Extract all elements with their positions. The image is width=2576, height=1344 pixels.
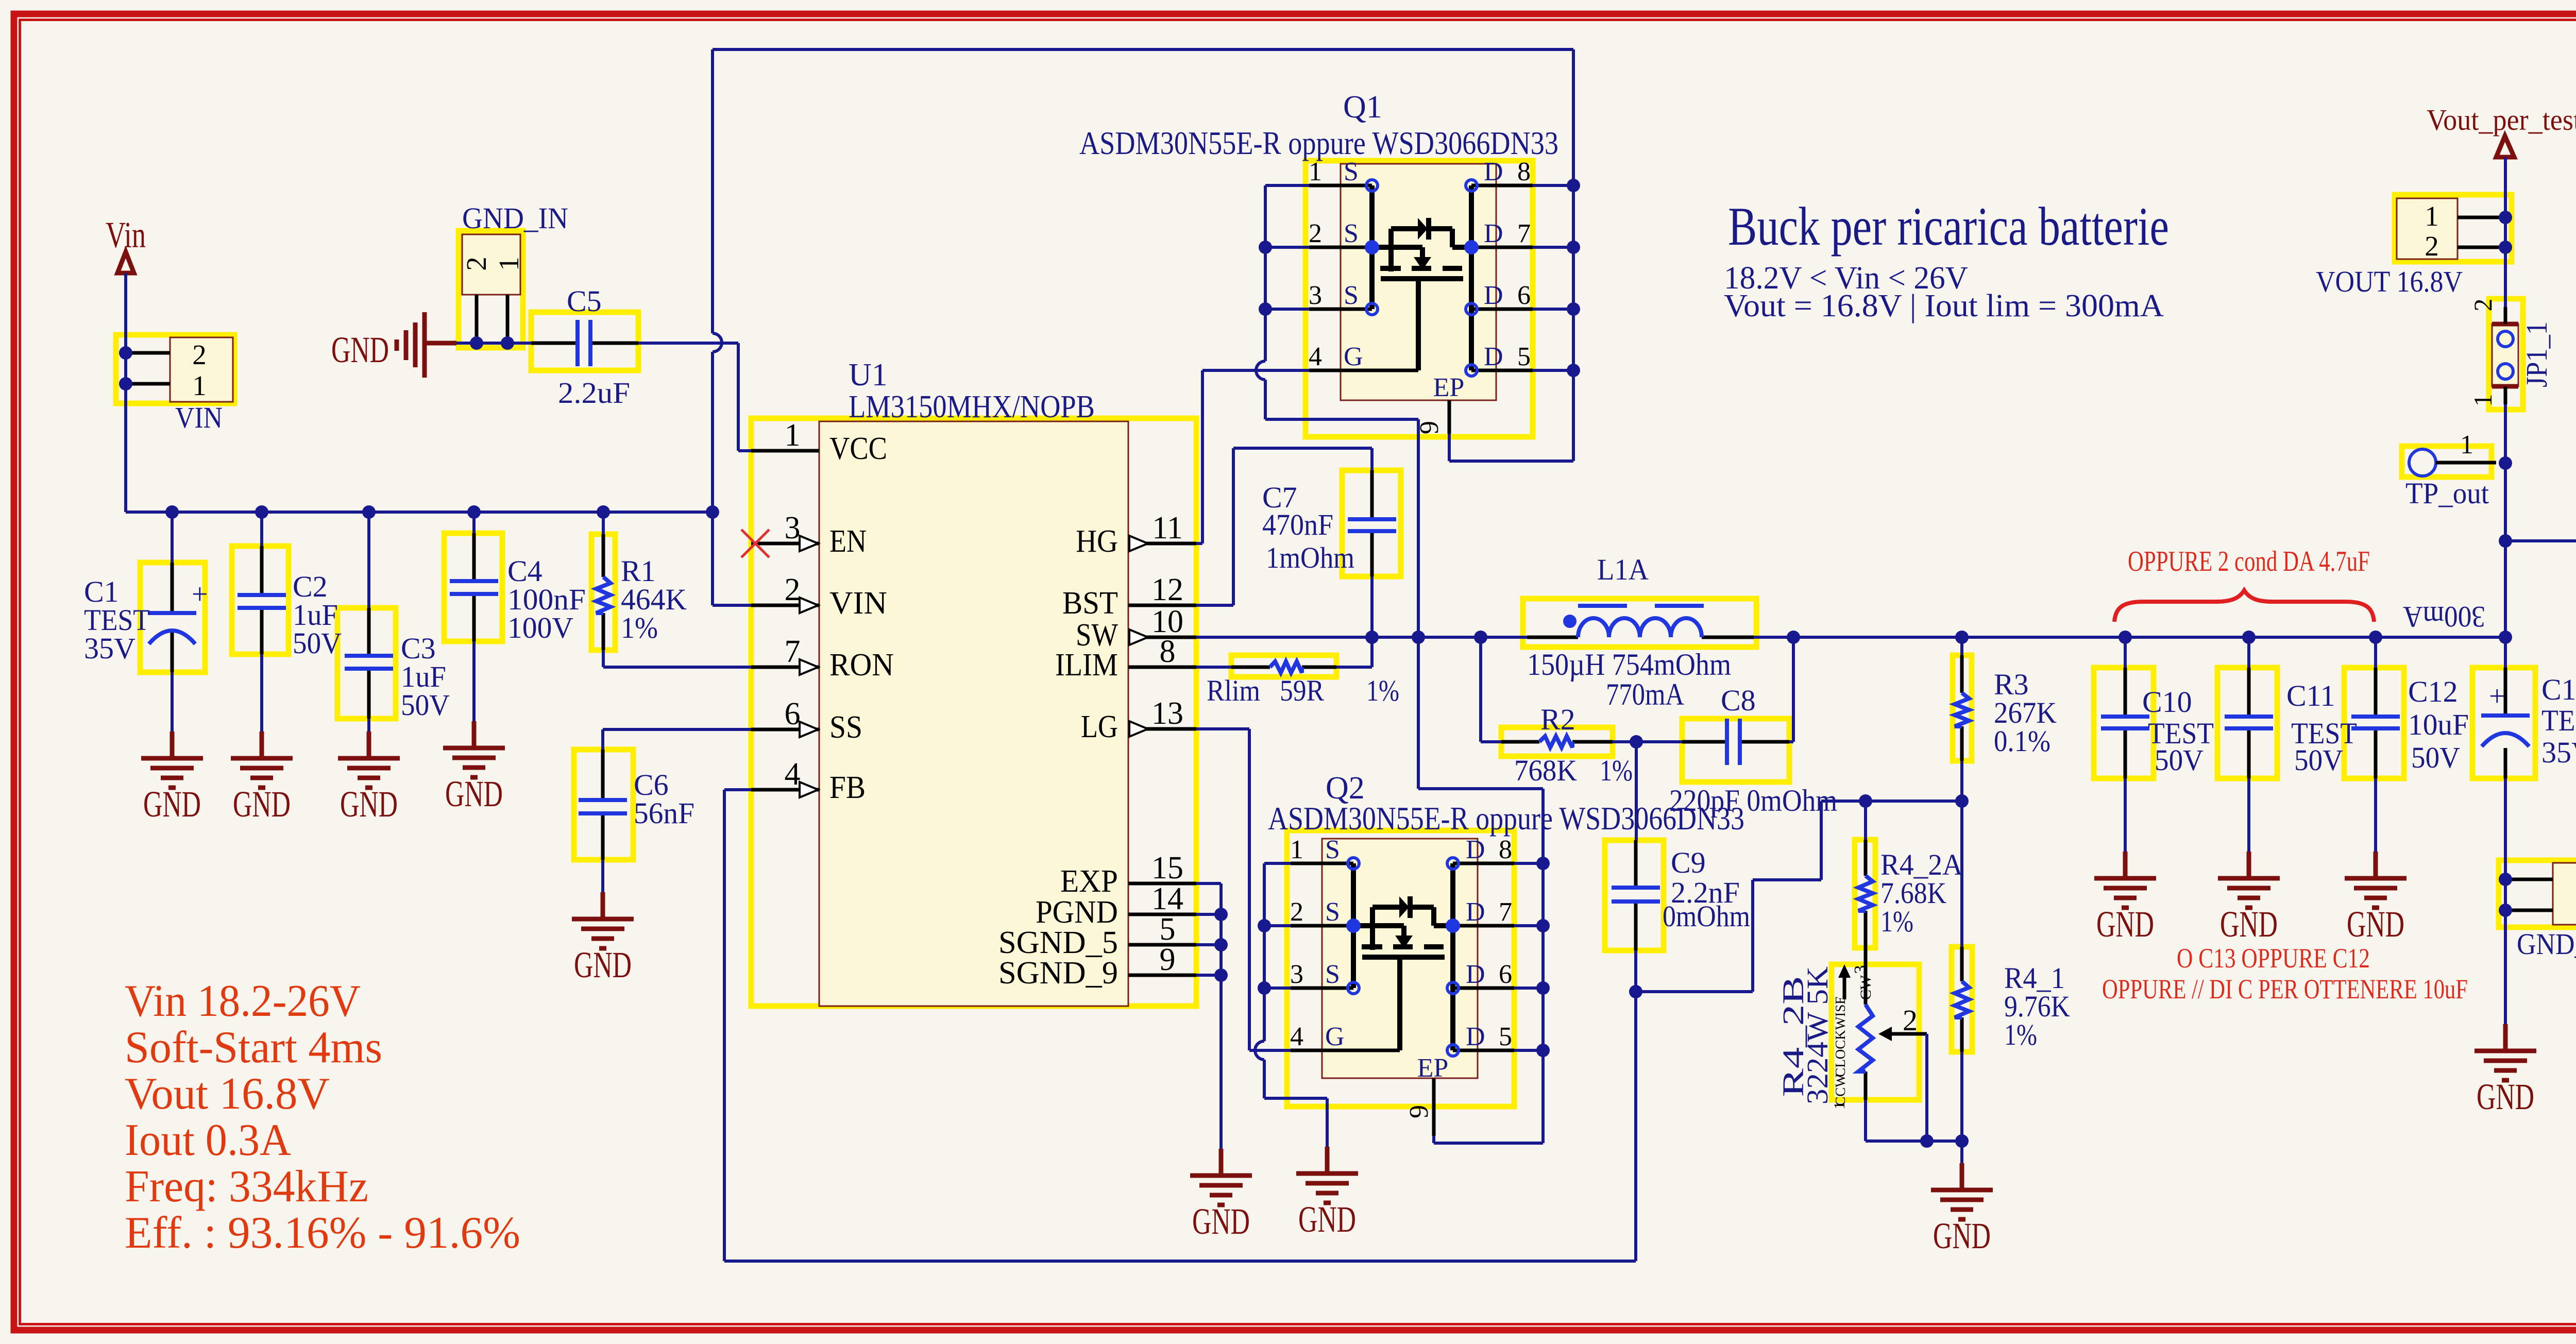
wire C8 to out bus xyxy=(1789,637,1793,742)
svg-text:50V: 50V xyxy=(2155,743,2204,777)
U1 pin 6 SS xyxy=(751,696,862,745)
highlight box: capacitor C4 100nF 100V xyxy=(444,533,502,641)
svg-text:Vout_per_test: Vout_per_test xyxy=(2427,103,2576,137)
U1 pin 15 EXP xyxy=(1060,850,1196,899)
svg-text:PGND: PGND xyxy=(1036,895,1118,930)
svg-text:C13: C13 xyxy=(2541,673,2576,706)
wire C10 to ground xyxy=(2124,778,2127,852)
svg-text:100V: 100V xyxy=(507,611,573,644)
U1 pin 13 LG xyxy=(1081,696,1196,744)
capacitor C6 56nF xyxy=(579,750,694,860)
svg-text:G: G xyxy=(1325,1022,1345,1051)
svg-text:R2: R2 xyxy=(1540,703,1575,736)
svg-text:14: 14 xyxy=(1151,881,1183,916)
svg-text:1%: 1% xyxy=(1600,754,1633,787)
svg-text:35V: 35V xyxy=(2541,736,2576,769)
resistor R1 464K 1% xyxy=(596,512,687,650)
svg-text:2: 2 xyxy=(1903,1003,1918,1037)
svg-text:+: + xyxy=(2489,680,2505,712)
wire C1 to ground xyxy=(171,672,174,731)
Q1 pin junction circles xyxy=(1366,180,1378,191)
highlight box: testpoint TP_out xyxy=(2402,446,2492,477)
svg-text:S: S xyxy=(1325,897,1340,927)
svg-text:2.2uF: 2.2uF xyxy=(558,376,630,410)
svg-text:2: 2 xyxy=(2425,230,2439,262)
wire Q1 S to Q2 D (SW column) xyxy=(1418,637,1543,863)
highlight box: resistor Rlim 59R 1% xyxy=(1231,655,1336,677)
svg-text:+: + xyxy=(192,579,208,610)
svg-text:50V: 50V xyxy=(401,688,450,722)
Q2 pin junction circles xyxy=(1348,858,1359,869)
wire R2 to node xyxy=(1613,740,1682,743)
capacitor C10 TEST 50V xyxy=(2101,637,2214,778)
svg-text:CLOCKWISE: CLOCKWISE xyxy=(1833,996,1848,1077)
svg-text:9: 9 xyxy=(1160,942,1176,977)
connector VOUT xyxy=(2316,198,2502,298)
highlight box: jumper JP1_1 xyxy=(2489,299,2523,410)
wire C13 to GND_OUT xyxy=(2504,778,2507,879)
svg-text:4: 4 xyxy=(785,757,801,792)
connector GND_OUT xyxy=(2509,863,2576,961)
highlight box: transistor Q2 ASDM30N55E-R xyxy=(1287,830,1514,1107)
wire C11 to ground xyxy=(2247,778,2250,852)
svg-text:FB: FB xyxy=(829,770,866,805)
highlight box: connector VOUT xyxy=(2395,195,2512,262)
highlight box: capacitor C13 TEST 35V xyxy=(2472,668,2535,778)
jumper JP1_1 xyxy=(2468,299,2553,407)
wire R1 to RON xyxy=(603,650,751,667)
svg-text:2: 2 xyxy=(1290,897,1303,927)
svg-text:1mOhm: 1mOhm xyxy=(1266,541,1354,574)
wire GND_OUT to ground xyxy=(2504,879,2507,1024)
wire to page edge xyxy=(2505,539,2576,542)
wire SS net xyxy=(603,729,751,750)
resistor R2 768K 1% xyxy=(1481,637,1633,787)
ground GND (C12) xyxy=(2345,852,2406,945)
svg-text:Freq: 334kHz: Freq: 334kHz xyxy=(125,1162,368,1212)
svg-text:1: 1 xyxy=(1309,157,1322,186)
U1 pin 11 HG xyxy=(1076,511,1196,559)
wire C7 to SW xyxy=(1370,576,1374,637)
svg-text:CW: CW xyxy=(1857,975,1874,1000)
svg-text:Rlim: Rlim xyxy=(1207,674,1260,707)
wire output bus 300mA xyxy=(1754,636,2505,639)
svg-text:Eff. : 93.16% - 91.6%: Eff. : 93.16% - 91.6% xyxy=(125,1208,520,1258)
svg-text:U1: U1 xyxy=(849,358,888,393)
svg-text:1%: 1% xyxy=(1366,674,1399,707)
resistor R4_1 9.76K 1% xyxy=(1955,801,2070,1052)
capacitor C9 2.2nF 0mOhm xyxy=(1612,742,1750,950)
svg-text:VOUT 16.8V: VOUT 16.8V xyxy=(2316,265,2463,298)
wire Q2 drain bus xyxy=(1514,863,1543,1050)
svg-text:2: 2 xyxy=(192,339,207,370)
svg-text:Buck per ricarica batterie: Buck per ricarica batterie xyxy=(1728,196,2169,257)
svg-text:D: D xyxy=(1466,897,1485,927)
highlight box: resistor R3 267K 0.1% xyxy=(1953,655,1972,761)
wire U1 ground bus xyxy=(1196,883,1221,1149)
svg-text:S: S xyxy=(1344,157,1359,186)
svg-text:GND_IN: GND_IN xyxy=(462,201,568,235)
U1 pin 4 FB xyxy=(751,757,866,805)
svg-text:TEST: TEST xyxy=(2541,704,2576,737)
svg-text:RON: RON xyxy=(829,648,894,683)
junction dots VIN pins xyxy=(119,346,132,360)
svg-text:2: 2 xyxy=(1309,219,1322,248)
wire R4_1 to ground xyxy=(1960,1052,1963,1163)
svg-text:Vout 16.8V: Vout 16.8V xyxy=(125,1069,330,1119)
highlight box: capacitor C7 470nF 1mOhm xyxy=(1342,470,1401,576)
highlight box: capacitor C6 56nF xyxy=(574,750,633,860)
svg-text:Vin 18.2-26V: Vin 18.2-26V xyxy=(125,976,361,1026)
svg-text:S: S xyxy=(1325,835,1340,864)
svg-text:59R: 59R xyxy=(1280,674,1324,707)
wire Vout column xyxy=(2504,157,2507,668)
svg-text:C10: C10 xyxy=(2142,685,2192,719)
svg-text:4: 4 xyxy=(1309,342,1322,371)
wire FB node to divider xyxy=(1636,801,1821,992)
svg-text:50V: 50V xyxy=(2411,741,2460,774)
note red spec block xyxy=(125,976,520,1258)
svg-text:EN: EN xyxy=(829,524,867,559)
highlight box: connector J VIN xyxy=(116,335,234,403)
U1 pin 3 EN xyxy=(751,511,867,559)
ground GND (input) xyxy=(331,312,456,378)
highlight box: capacitor C8 220pF 0mOhm xyxy=(1682,719,1789,782)
svg-text:7: 7 xyxy=(785,634,801,669)
svg-text:50V: 50V xyxy=(2294,743,2343,777)
svg-text:VCC: VCC xyxy=(829,431,887,466)
svg-text:7: 7 xyxy=(1499,897,1512,927)
highlight box: connector GND_OUT xyxy=(2499,860,2576,927)
power flag Vin xyxy=(106,214,146,273)
svg-text:LM3150MHX/NOPB: LM3150MHX/NOPB xyxy=(849,389,1095,424)
wire hop (Q2 S bus over LG) xyxy=(1255,1041,1264,1060)
svg-text:SGND_9: SGND_9 xyxy=(998,956,1118,991)
power flag Vout_per_test xyxy=(2427,103,2576,157)
testpoint TP_out xyxy=(2405,430,2496,510)
wire Q1 drain bus (Vin) xyxy=(1533,185,1573,370)
svg-text:1: 1 xyxy=(2468,394,2497,407)
U1 pin 10 SW xyxy=(1076,604,1196,653)
highlight box: potentiometer R4_2B 3224W 5K xyxy=(1832,964,1919,1100)
svg-text:7: 7 xyxy=(1517,219,1531,248)
highlight box: capacitor C2 1uF 50V xyxy=(232,546,289,654)
junction dots Q1 S bus xyxy=(1259,241,1272,254)
svg-text:0mOhm: 0mOhm xyxy=(1663,899,1750,933)
U1 pin 12 BST xyxy=(1062,572,1196,621)
svg-text:D: D xyxy=(1484,157,1503,186)
U1 pin 1 VCC xyxy=(751,418,887,466)
wire Q2 source bus to ground xyxy=(1264,863,1291,988)
svg-text:1: 1 xyxy=(192,370,207,401)
svg-text:470nF: 470nF xyxy=(1262,508,1333,541)
capacitor C1 TEST 35V xyxy=(84,512,208,672)
svg-text:35V: 35V xyxy=(84,632,135,665)
highlight box: capacitor C12 10uF 50V xyxy=(2344,668,2404,778)
wire divider row xyxy=(1821,761,1962,801)
svg-text:Vout = 16.8V | Iout lim = 300m: Vout = 16.8V | Iout lim = 300mA xyxy=(1724,288,2164,324)
capacitor C8 220pF 0mOhm xyxy=(1669,684,1837,818)
ground GND (U1) xyxy=(1190,1149,1252,1242)
U1 pin 5 SGND_5 xyxy=(998,912,1196,960)
capacitor C3 1uF 50V xyxy=(345,512,450,722)
resistor R3 267K 0.1% xyxy=(1955,637,2057,761)
connector GND_IN xyxy=(461,201,568,339)
connector J VIN xyxy=(130,337,233,434)
svg-text:8: 8 xyxy=(1160,634,1176,669)
highlight box: capacitor C5 2.2uF xyxy=(531,312,638,370)
svg-text:3: 3 xyxy=(1290,960,1303,989)
svg-text:C8: C8 xyxy=(1721,684,1756,717)
svg-text:JP1_1: JP1_1 xyxy=(2520,321,2553,387)
svg-text:1: 1 xyxy=(1290,835,1303,864)
highlight box: connector GND_IN xyxy=(459,231,523,348)
highlight box: capacitor C11 TEST 50V xyxy=(2217,668,2277,778)
svg-text:9: 9 xyxy=(1404,1105,1434,1118)
wire pot bottom loop xyxy=(1866,1034,1962,1141)
wire FB net bottom loop xyxy=(724,790,1636,1261)
svg-text:11: 11 xyxy=(1152,511,1183,546)
svg-text:1%: 1% xyxy=(2004,1018,2037,1051)
svg-text:D: D xyxy=(1484,281,1503,310)
svg-text:ASDM30N55E-R oppure WSD3066DN3: ASDM30N55E-R oppure WSD3066DN33 xyxy=(1268,800,1744,837)
wire Rlim to SW node xyxy=(1336,637,1372,667)
resistor R4_2A 7.68K 1% xyxy=(1858,801,1963,948)
svg-text:2: 2 xyxy=(2468,299,2497,312)
svg-text:5: 5 xyxy=(1499,1022,1512,1051)
ground GND (C11) xyxy=(2218,852,2280,945)
svg-text:0.1%: 0.1% xyxy=(1994,724,2050,758)
svg-text:G: G xyxy=(1344,342,1363,371)
highlight box: resistor R1 464K 1% xyxy=(591,534,615,650)
wire HG to Q1 gate xyxy=(1196,370,1309,543)
highlight box: capacitor C1 TEST 35V xyxy=(140,563,205,672)
capacitor C11 TEST 50V xyxy=(2225,637,2357,778)
svg-text:6: 6 xyxy=(1517,281,1531,310)
svg-text:TP_out: TP_out xyxy=(2405,477,2489,510)
svg-text:1: 1 xyxy=(2425,200,2439,232)
svg-text:4: 4 xyxy=(1290,1022,1303,1051)
svg-text:6: 6 xyxy=(1499,960,1512,989)
svg-text:C11: C11 xyxy=(2286,679,2335,712)
svg-text:C12: C12 xyxy=(2408,675,2458,708)
wire Q1 source bus to SW xyxy=(1265,185,1309,309)
svg-text:3: 3 xyxy=(1309,281,1322,310)
resistor Rlim 59R 1% xyxy=(1196,661,1399,707)
capacitor C5 2.2uF xyxy=(531,284,638,410)
ground GND (C1) xyxy=(141,731,203,825)
wire ground to GND_IN and C5 xyxy=(456,342,531,345)
svg-text:SGND_5: SGND_5 xyxy=(998,925,1118,960)
svg-text:VIN: VIN xyxy=(175,401,223,434)
svg-text:Iout 0.3A: Iout 0.3A xyxy=(125,1115,291,1165)
highlight box: capacitor C3 1uF 50V xyxy=(337,608,396,719)
svg-text:2: 2 xyxy=(785,572,801,607)
highlight box: transistor Q1 ASDM30N55E-R xyxy=(1306,161,1533,437)
ground GND (divider) xyxy=(1931,1163,1993,1256)
wire BST to C7 xyxy=(1196,448,1372,605)
transistor Q2 ASDM30N55E-R xyxy=(1268,771,1744,1136)
svg-text:ASDM30N55E-R oppure WSD3066DN3: ASDM30N55E-R oppure WSD3066DN33 xyxy=(1079,125,1558,161)
svg-text:5: 5 xyxy=(1517,342,1531,371)
svg-text:D: D xyxy=(1466,960,1485,989)
ground GND (C10) xyxy=(2094,852,2156,945)
svg-text:OPPURE // DI C PER OTTENERE 10: OPPURE // DI C PER OTTENERE 10uF xyxy=(2102,974,2468,1005)
svg-text:1: 1 xyxy=(493,257,524,271)
svg-text:5: 5 xyxy=(1160,912,1176,947)
no-connect X on EN xyxy=(741,530,769,557)
svg-text:56nF: 56nF xyxy=(634,796,694,830)
svg-text:C5: C5 xyxy=(567,284,602,318)
svg-text:8: 8 xyxy=(1499,835,1512,864)
svg-text:3224W 5K: 3224W 5K xyxy=(1801,966,1834,1104)
svg-text:VIN: VIN xyxy=(829,586,887,621)
svg-text:8: 8 xyxy=(1517,157,1531,186)
U1 pin 14 PGND xyxy=(1036,881,1196,930)
svg-text:6: 6 xyxy=(785,696,801,731)
svg-text:S: S xyxy=(1344,281,1359,310)
svg-text:O C13 OPPURE C12: O C13 OPPURE C12 xyxy=(2177,943,2370,974)
potentiometer R4_2B 3224W 5K xyxy=(1776,948,1927,1110)
U1 pin 8 ILIM xyxy=(1055,634,1196,683)
svg-text:S: S xyxy=(1325,960,1340,989)
wire hop xyxy=(713,333,722,352)
wire C12 to ground xyxy=(2374,778,2377,852)
U1 pin 9 SGND_9 xyxy=(998,942,1196,991)
svg-text:13: 13 xyxy=(1151,696,1183,731)
wire C9 bottom node xyxy=(1634,950,1637,992)
U1 pin 7 RON xyxy=(751,634,894,683)
ground GND (Q2 source) xyxy=(1296,1147,1358,1240)
svg-text:300mA: 300mA xyxy=(2403,600,2485,634)
svg-text:770mA: 770mA xyxy=(1606,677,1684,711)
ground GND (C6) xyxy=(572,892,634,985)
wire LG to Q2 gate xyxy=(1196,729,1291,1050)
svg-text:CCW: CCW xyxy=(1833,1074,1848,1106)
ground GND (C3) xyxy=(338,731,400,825)
svg-text:1%: 1% xyxy=(621,611,658,644)
svg-text:HG: HG xyxy=(1076,524,1118,559)
svg-text:D: D xyxy=(1484,219,1503,248)
svg-text:Soft-Start 4ms: Soft-Start 4ms xyxy=(125,1023,382,1073)
junction dots input bus xyxy=(165,505,179,519)
wire C2 to ground xyxy=(260,654,263,731)
U1 pin 2 VIN xyxy=(751,572,887,621)
svg-text:3: 3 xyxy=(785,511,801,546)
ground GND (C4) xyxy=(443,721,505,814)
svg-text:SS: SS xyxy=(829,710,862,745)
highlight box: resistor R2 768K 1% xyxy=(1501,727,1613,756)
capacitor C13 TEST 35V xyxy=(2481,668,2576,778)
junction dots Q1 D bus xyxy=(1567,179,1580,192)
svg-text:GND: GND xyxy=(331,329,389,370)
highlight box: resistor R4_2A 7.68K 1% xyxy=(1855,840,1875,948)
svg-text:1: 1 xyxy=(2460,430,2473,460)
svg-text:GND_OUT: GND_OUT xyxy=(2517,927,2576,961)
svg-text:3: 3 xyxy=(1851,965,1870,974)
brace annotation xyxy=(2114,590,2374,622)
svg-text:EP: EP xyxy=(1433,373,1465,402)
svg-text:1: 1 xyxy=(785,418,801,453)
highlight box: capacitor C9 2.2nF 0mOhm xyxy=(1605,840,1664,950)
op-amp U1 LM3150MHX/NOPB body xyxy=(819,358,1128,1006)
wire C4 to ground xyxy=(472,641,476,721)
svg-text:12: 12 xyxy=(1151,572,1183,607)
wire SW bus xyxy=(1196,636,1527,639)
svg-text:D: D xyxy=(1466,1022,1485,1051)
svg-text:Q1: Q1 xyxy=(1343,90,1382,125)
transistor Q1 ASDM30N55E-R xyxy=(1079,90,1558,434)
wire Vin vertical to bus xyxy=(124,273,127,512)
highlight box: U1 highlight box xyxy=(751,418,1196,1006)
wire C6 to ground xyxy=(601,860,604,892)
capacitor C4 100nF 100V xyxy=(450,512,586,644)
wire bus to VIN pin xyxy=(713,512,751,605)
svg-text:15: 15 xyxy=(1151,850,1183,886)
inductor L1A 150uH xyxy=(1527,553,1754,711)
svg-text:C9: C9 xyxy=(1671,846,1706,879)
highlight box: capacitor C10 TEST 50V xyxy=(2094,668,2154,778)
capacitor C12 10uF 50V xyxy=(2351,637,2469,778)
svg-text:OPPURE 2 cond DA 4.7uF: OPPURE 2 cond DA 4.7uF xyxy=(2128,546,2370,577)
svg-text:150µH 754mOhm: 150µH 754mOhm xyxy=(1527,648,1731,682)
wire C5 to VCC xyxy=(638,343,751,451)
svg-text:10uF: 10uF xyxy=(2408,708,2469,741)
junction dots SW bus xyxy=(1365,631,1379,644)
svg-text:50V: 50V xyxy=(293,626,342,660)
svg-text:768K: 768K xyxy=(1514,754,1577,787)
wire top feed with hop xyxy=(713,49,1573,512)
junction dots GND_IN pins xyxy=(470,336,483,350)
svg-text:1%: 1% xyxy=(1880,905,1913,938)
svg-text:S: S xyxy=(1344,219,1359,248)
svg-text:D: D xyxy=(1484,342,1503,371)
svg-text:BST: BST xyxy=(1062,586,1118,621)
wire C3 to ground xyxy=(367,719,370,731)
capacitor C2 1uF 50V xyxy=(238,512,342,660)
svg-text:2: 2 xyxy=(461,257,492,271)
capacitor C7 470nF 1mOhm xyxy=(1262,470,1396,576)
wire hop (Q1 S bus over HG) xyxy=(1256,361,1265,380)
svg-text:L1A: L1A xyxy=(1597,553,1649,586)
highlight box: inductor L1A 150uH xyxy=(1523,599,1756,647)
svg-text:ILIM: ILIM xyxy=(1055,648,1118,683)
ground GND (output) xyxy=(2475,1024,2536,1117)
ground GND (C2) xyxy=(231,731,293,825)
highlight box: resistor R4_1 9.76K 1% xyxy=(1952,947,1972,1052)
wire Vin bus xyxy=(126,511,713,514)
svg-text:EXP: EXP xyxy=(1060,864,1118,899)
svg-text:D: D xyxy=(1466,835,1485,864)
svg-text:LG: LG xyxy=(1081,709,1118,744)
